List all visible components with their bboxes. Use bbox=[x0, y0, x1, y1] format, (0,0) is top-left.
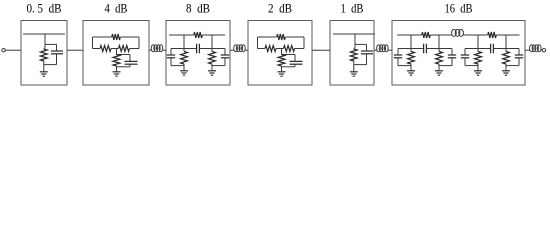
inductor L1 bbox=[151, 45, 162, 52]
stage box 1dB bbox=[330, 21, 374, 86]
wire 4dB box to L1 bbox=[149, 49, 152, 51]
wire tap (0.5dB) bbox=[44, 34, 45, 49]
resistor R series1 (4dB) bbox=[100, 46, 111, 52]
output terminal bbox=[542, 49, 545, 52]
svg-text:0. 5 dB: 0. 5 dB bbox=[27, 2, 62, 16]
wire main mid (2dB) bbox=[276, 48, 284, 50]
wire left R stem (16dB-B) bbox=[477, 49, 479, 52]
ground (4dB) bbox=[113, 72, 121, 76]
wire cap bottom to node (2dB) bbox=[282, 66, 296, 68]
ground (0.5dB) bbox=[40, 72, 48, 76]
wire right cap drop (16dB-B) bbox=[518, 49, 520, 56]
label 2 dB bbox=[268, 2, 292, 16]
wire bridge left vert (16dB-A) bbox=[410, 35, 412, 49]
wire L1 to 8dB box bbox=[162, 49, 166, 51]
wire bridge right vert (8dB) bbox=[211, 35, 213, 49]
resistor R (1dB) bbox=[350, 49, 357, 61]
resistor R bridge (2dB) bbox=[277, 34, 285, 40]
label 8 dB bbox=[186, 2, 210, 16]
capacitor C shunt left (16dB-B) bbox=[461, 55, 469, 66]
resistor R shunt right (16dB-A) bbox=[436, 52, 443, 64]
wire main out (8dB) bbox=[199, 48, 225, 50]
wire main out (16dB-B) bbox=[493, 48, 519, 50]
wire right R to ground (16dB-A) bbox=[438, 64, 440, 71]
wire shunt R to ground (2dB) bbox=[281, 66, 283, 72]
stage box 4dB bbox=[83, 21, 149, 86]
resistor R shunt left (16dB-A) bbox=[408, 52, 415, 64]
wire left cap to node (16dB-B) bbox=[465, 65, 478, 67]
wire tap to cap (4dB) bbox=[117, 54, 131, 56]
ground (2dB) bbox=[278, 72, 286, 76]
inductor L2 bbox=[234, 45, 245, 52]
wire left R stem (16dB-A) bbox=[410, 49, 412, 52]
label 4 dB bbox=[105, 2, 128, 16]
wire main in (4dB) bbox=[93, 48, 101, 50]
wire right cap to node (8dB) bbox=[212, 65, 225, 67]
wire top line midR (16dB) bbox=[463, 34, 487, 36]
wire input to 0.5dB box bbox=[5, 49, 21, 51]
capacitor C shunt left (16dB-A) bbox=[394, 55, 402, 66]
wire top bar (1dB) bbox=[333, 33, 375, 35]
wire cap bottom to node (0.5dB) bbox=[44, 64, 57, 66]
wire bridge top right (4dB) bbox=[121, 36, 140, 38]
resistor R shunt right (16dB-B) bbox=[503, 52, 510, 64]
capacitor C shunt (2dB) bbox=[290, 55, 303, 67]
resistor R bridge (4dB) bbox=[112, 34, 120, 40]
wire bridge top left (8dB) bbox=[169, 34, 194, 36]
wire right R to ground (8dB) bbox=[211, 64, 213, 71]
resistor R bridge A (16dB) bbox=[422, 32, 430, 38]
wire main in (8dB) bbox=[171, 48, 197, 50]
wire bridge left vert (16dB-B) bbox=[477, 35, 479, 49]
wire left cap drop (8dB) bbox=[170, 49, 172, 56]
wire main out (2dB) bbox=[295, 48, 305, 50]
label 16 dB bbox=[445, 2, 473, 16]
ground right (16dB-B) bbox=[502, 71, 510, 75]
wire left cap to node (8dB) bbox=[171, 65, 184, 67]
wire resistor to ground (0.5dB) bbox=[43, 61, 45, 72]
wire branch to cap (0.5dB) bbox=[45, 44, 57, 51]
wire L5 to output bbox=[541, 49, 543, 51]
capacitor C (1dB) bbox=[361, 51, 373, 65]
svg-text:8 dB: 8 dB bbox=[186, 2, 210, 16]
wire right R to ground (16dB-B) bbox=[505, 64, 507, 71]
wire bridge right (4dB) bbox=[138, 37, 140, 49]
wire bridge right vert (16dB-B) bbox=[505, 35, 507, 49]
wire left R to ground (16dB-B) bbox=[477, 64, 479, 71]
wire bridge right vert (16dB-A) bbox=[438, 35, 440, 49]
resistor R (0.5dB) bbox=[40, 49, 47, 61]
capacitor C (0.5dB) bbox=[51, 51, 63, 65]
wire branch to cap (1dB) bbox=[355, 44, 367, 51]
wire top line left (16dB) bbox=[397, 34, 422, 36]
wire 2dB to 1dB bbox=[312, 49, 330, 51]
capacitor C shunt left (8dB) bbox=[167, 55, 175, 66]
wire shunt tap (4dB) bbox=[116, 49, 118, 55]
capacitor C shunt right (16dB-B) bbox=[515, 55, 523, 66]
wire bridge left (2dB) bbox=[257, 37, 259, 49]
wire resistor to ground (1dB) bbox=[353, 61, 355, 72]
resistor R bridge B (16dB) bbox=[488, 32, 496, 38]
resistor R shunt (4dB) bbox=[113, 55, 120, 67]
stage box 8dB bbox=[166, 21, 230, 86]
wire right R stem (8dB) bbox=[211, 49, 213, 52]
ground left (8dB) bbox=[180, 71, 188, 75]
ground (1dB) bbox=[350, 72, 358, 76]
wire top line midL (16dB) bbox=[431, 34, 452, 36]
resistor R shunt right (8dB) bbox=[209, 52, 216, 64]
resistor R bridge (8dB) bbox=[194, 32, 203, 38]
capacitor C series (8dB) bbox=[197, 44, 200, 54]
wire right cap to node (16dB-B) bbox=[506, 65, 519, 67]
ground left (16dB-A) bbox=[407, 71, 415, 75]
resistor R series2 (2dB) bbox=[284, 46, 295, 52]
wire main in (16dB-A) bbox=[398, 48, 424, 50]
capacitor C series (16dB-B) bbox=[491, 44, 494, 54]
wire right R stem (16dB-A) bbox=[438, 49, 440, 52]
ground left (16dB-B) bbox=[474, 71, 482, 75]
wire left R stem (8dB) bbox=[183, 49, 185, 52]
input terminal bbox=[2, 49, 5, 52]
capacitor C series (16dB-A) bbox=[424, 44, 427, 54]
wire left R to ground (8dB) bbox=[183, 64, 185, 71]
wire top line right (16dB) bbox=[497, 34, 520, 36]
wire bridge left vert (8dB) bbox=[183, 35, 185, 49]
wire 8dB box to L2 bbox=[230, 49, 234, 51]
resistor R shunt left (8dB) bbox=[181, 52, 188, 64]
wire L2 to 2dB box bbox=[245, 49, 248, 51]
wire 1dB box to L3 bbox=[374, 49, 377, 51]
wire cap bottom to node (1dB) bbox=[354, 64, 367, 66]
wire bridge top left (2dB) bbox=[258, 36, 277, 38]
wire 0.5dB to 4dB bbox=[67, 49, 83, 51]
stage box 16dB bbox=[392, 21, 525, 86]
stage box 2dB bbox=[248, 21, 312, 86]
wire left cap to node (16dB-A) bbox=[398, 65, 411, 67]
capacitor C shunt right (16dB-A) bbox=[448, 55, 456, 66]
resistor R series2 (4dB) bbox=[119, 46, 130, 52]
stage box 0. 5dB bbox=[21, 21, 67, 86]
inductor L5 bbox=[530, 45, 542, 52]
capacitor C shunt (4dB) bbox=[125, 55, 138, 67]
svg-text:1 dB: 1 dB bbox=[341, 2, 364, 16]
wire tap (1dB) bbox=[354, 34, 355, 49]
wire left R to ground (16dB-A) bbox=[410, 64, 412, 71]
wire right cap to node (16dB-A) bbox=[439, 65, 452, 67]
label 1 dB bbox=[341, 2, 364, 16]
svg-text:4 dB: 4 dB bbox=[105, 2, 128, 16]
svg-text:2 dB: 2 dB bbox=[268, 2, 292, 16]
wire bridge top right (2dB) bbox=[286, 36, 305, 38]
wire bridge right (2dB) bbox=[303, 37, 305, 49]
wire main mid (4dB) bbox=[111, 48, 119, 50]
resistor R shunt left (16dB-B) bbox=[475, 52, 482, 64]
wire left cap drop (16dB-B) bbox=[464, 49, 466, 56]
wire 16dB box to L5 bbox=[525, 49, 530, 51]
wire right R stem (16dB-B) bbox=[505, 49, 507, 52]
wire bridge left (4dB) bbox=[92, 37, 94, 49]
ground right (8dB) bbox=[208, 71, 216, 75]
wire right cap drop (16dB-A) bbox=[451, 49, 453, 56]
ground right (16dB-A) bbox=[435, 71, 443, 75]
wire main out (16dB-A) bbox=[426, 48, 452, 50]
wire left cap drop (16dB-A) bbox=[397, 49, 399, 56]
wire L3 to 16dB box bbox=[388, 49, 392, 51]
resistor R series1 (2dB) bbox=[265, 46, 276, 52]
wire cap bottom to node (4dB) bbox=[117, 66, 131, 68]
wire shunt tap (2dB) bbox=[281, 49, 283, 55]
inductor L4 (16dB) bbox=[452, 29, 464, 36]
wire main in (2dB) bbox=[258, 48, 266, 50]
label 0. 5 dB bbox=[27, 2, 62, 16]
wire top bar (0.5dB) bbox=[23, 33, 65, 35]
wire main in (16dB-B) bbox=[465, 48, 491, 50]
wire bridge top left (4dB) bbox=[93, 36, 112, 38]
wire bridge top right (8dB) bbox=[203, 34, 226, 36]
svg-text:16 dB: 16 dB bbox=[445, 2, 473, 16]
wire tap to cap (2dB) bbox=[282, 54, 296, 56]
wire right cap drop (8dB) bbox=[224, 49, 226, 56]
capacitor C shunt right (8dB) bbox=[221, 55, 229, 66]
inductor L3 bbox=[377, 45, 389, 52]
wire shunt R to ground (4dB) bbox=[116, 66, 118, 72]
resistor R shunt (2dB) bbox=[278, 55, 285, 67]
wire main out (4dB) bbox=[130, 48, 140, 50]
